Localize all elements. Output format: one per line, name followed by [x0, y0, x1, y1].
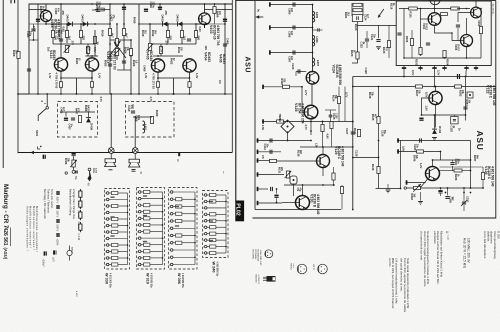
long trimmer arrow ch2 — [114, 42, 126, 59]
terminal base feed — [262, 85, 264, 89]
wire v125 base — [262, 86, 302, 88]
resistor R403 — [79, 31, 82, 38]
muting stage dashed box — [58, 102, 98, 138]
W330 pin 9 — [106, 211, 109, 214]
wire hy e2 — [466, 47, 468, 59]
resistor R423 — [129, 49, 132, 56]
wire rail y86 — [353, 86, 496, 88]
wire y151 rail — [257, 151, 282, 153]
wire drop v102 — [434, 71, 436, 87]
wire ch1 mid rail — [53, 43, 95, 45]
emitter resistor R433 — [59, 82, 62, 88]
tone network dashed box — [126, 102, 175, 138]
wire r122 rail — [362, 3, 364, 16]
W306 pin 4 — [170, 205, 173, 208]
wire c144 — [276, 189, 278, 194]
resistor R133 — [340, 187, 343, 194]
terminal antenna 2 — [269, 25, 271, 29]
W330 pin 2 — [106, 244, 109, 247]
transistor V101 — [428, 13, 441, 26]
resistor R127 — [416, 85, 423, 88]
wire ch2 output drop — [173, 78, 175, 94]
wire x465 — [465, 77, 467, 121]
transistor V100 (edge) — [430, 0, 440, 5]
wire gnd mid — [387, 184, 389, 189]
wire mixer drop — [287, 121, 289, 123]
capacitor C411 — [187, 39, 191, 41]
capacitor C121 — [376, 40, 380, 42]
wire ch2 base rail V404 — [153, 55, 183, 57]
wire V403 emitter to diode row — [204, 25, 206, 28]
capacitor C126 — [463, 107, 467, 109]
wire W330 pin 8 — [109, 238, 128, 240]
wire r436 — [73, 156, 75, 160]
transistor V414 — [54, 58, 67, 71]
wire W306 pin 3 — [173, 191, 195, 193]
long trimmer arrow ch1 — [108, 41, 121, 58]
wire y115 — [422, 114, 466, 116]
lamp H401 — [108, 148, 114, 154]
capacitor C249 — [450, 163, 454, 165]
capacitor C608 — [318, 28, 320, 31]
trimmer capacitor C237 — [462, 202, 466, 204]
W330 pin 3 — [106, 198, 109, 201]
W330 pin 5 — [106, 231, 109, 234]
wire mid rail x117 — [116, 24, 118, 60]
wire r126 — [322, 122, 324, 125]
wire ch1 output drop — [76, 78, 78, 94]
wire supply rail y76 — [353, 76, 491, 78]
wire r120 — [388, 26, 390, 41]
ground c121 — [376, 47, 381, 50]
boxed capacitor C124 — [352, 15, 362, 22]
capacitor C606 — [293, 25, 295, 29]
wire x378 rail — [378, 87, 380, 189]
wire c236 — [447, 188, 449, 195]
wire W330 pin 9 — [109, 212, 128, 214]
resistor R236 — [454, 169, 462, 172]
wire ch1 rail x53 — [52, 24, 54, 44]
wire antenna stub 1 — [269, 4, 313, 6]
resistor R105 — [479, 27, 482, 34]
W310 pin 2 — [138, 197, 141, 200]
diode D406 — [86, 118, 91, 123]
terminal antenna 3 — [269, 50, 271, 54]
W310 pin 1 — [138, 204, 141, 207]
W310 pin 4 — [138, 217, 141, 220]
wire W330 pin 3 — [109, 225, 112, 227]
resistor R125 — [277, 120, 284, 123]
wire c249 — [452, 160, 454, 162]
lamp H402 — [132, 148, 138, 154]
wire trim ch2 — [149, 24, 151, 43]
wire W330 pin 5 — [109, 192, 112, 194]
wire ch2 rail x168 — [167, 24, 169, 43]
wire x345 — [344, 87, 346, 122]
wire c125b — [330, 110, 332, 115]
resistor R427 — [98, 8, 105, 11]
title underline — [10, 228, 12, 247]
wire antenna stub 3 — [269, 52, 313, 54]
wire W330 pin 4 — [109, 251, 112, 253]
wire ch1 collector rail — [45, 4, 47, 10]
terminal y203 — [257, 201, 259, 205]
diode D403 — [83, 22, 88, 27]
terminal y140 right — [397, 138, 399, 142]
connector PL02 black label — [235, 201, 244, 222]
left page edge line — [2, 0, 4, 168]
connector W306 outline — [169, 188, 198, 270]
capacitor C426 — [158, 7, 162, 10]
wire W310 pin 4 — [141, 264, 144, 266]
wire x352 rail — [352, 77, 354, 210]
wire hy mid — [452, 33, 461, 41]
wire d132 stub — [434, 115, 436, 129]
inductor L606 — [313, 36, 315, 47]
transistor V413 — [40, 10, 51, 21]
wire drop v101 — [403, 71, 405, 77]
emitter resistor R434 — [90, 82, 93, 88]
terminal stub below border — [178, 153, 180, 157]
inductor L605 — [313, 12, 315, 23]
W306 pin 5 — [170, 234, 173, 237]
wire ch2 rail x139 — [138, 4, 140, 94]
IF input arrow — [256, 15, 263, 18]
wire hy r105 — [480, 9, 482, 27]
resistor R121 — [353, 3, 362, 6]
terminal y151 — [257, 150, 259, 154]
W240 pin 5 — [204, 220, 207, 223]
wire c608 stub — [313, 29, 323, 31]
W306 pin 1 — [170, 198, 173, 201]
W240 pin 6 — [204, 194, 207, 197]
wire v129 base rail — [276, 160, 317, 162]
left page inner rail — [17, 0, 19, 153]
wire W310 pin 4 — [141, 217, 144, 219]
transistor V126 — [426, 167, 440, 181]
terminal y121 — [262, 119, 264, 123]
W330 pin 6 — [106, 218, 109, 221]
wire ch2 mid rail — [153, 43, 196, 45]
wire r133 — [341, 185, 343, 187]
W310 pin 5 — [138, 191, 141, 194]
resistor R126 — [321, 125, 324, 132]
wire W330 bus — [127, 193, 129, 265]
wire spk2 join — [134, 154, 136, 160]
wire y160 row — [433, 159, 471, 161]
wire y147 rail — [300, 146, 353, 148]
ground d132 — [432, 138, 437, 141]
capacitor C413 — [144, 9, 148, 12]
wire W240 pin 3 — [207, 226, 210, 228]
resistor R406 — [93, 37, 96, 44]
pin r233 — [404, 187, 406, 189]
W330 pin 5 — [106, 192, 109, 195]
pin marker — [38, 146, 41, 149]
wire tp link — [358, 25, 397, 27]
capacitor C404 — [31, 29, 35, 31]
wire ch1 top rail — [29, 9, 46, 11]
W310 pin 8 — [138, 211, 141, 214]
wire ch2 top rail — [205, 9, 233, 11]
wire mute rail — [60, 111, 95, 113]
wire W306 pin 2 — [173, 213, 176, 215]
wire W306 pin 2 — [173, 264, 195, 266]
hybrid pin stub — [444, 66, 446, 71]
test point arrow — [378, 9, 384, 18]
wire gnd r233 — [420, 192, 422, 201]
wire ch1 base rail V415 — [85, 55, 98, 57]
capacitor C430 — [43, 155, 46, 159]
wire hy bottom rail — [404, 57, 481, 59]
wire ch1 rail x38 — [37, 4, 39, 94]
wire v125 e — [310, 119, 312, 135]
resistor R408 — [150, 117, 153, 124]
diode D400 — [163, 22, 168, 27]
W330 pin 3 — [106, 224, 109, 227]
W306 pin 4 — [170, 256, 173, 259]
loudspeaker B401 — [105, 159, 116, 167]
W240 pin 4 — [204, 239, 207, 242]
wire ladder rail — [312, 5, 314, 72]
W240 pin 8 — [204, 213, 207, 216]
ground mid — [386, 190, 391, 193]
wire W306 pin 2 — [173, 227, 195, 229]
W240 pin 3 — [204, 226, 207, 229]
wire W240 pin 2 — [207, 207, 226, 209]
W240 pin 7 — [204, 252, 207, 255]
resistor R101 — [409, 7, 418, 10]
wire W330 pin 3 — [109, 199, 128, 201]
wire W306 pin 6 — [173, 220, 176, 222]
W330 pin 8 — [106, 237, 109, 240]
legend electrolytic symbols — [44, 251, 47, 255]
capacitor C408 — [131, 111, 135, 113]
capacitor C125 — [458, 74, 460, 79]
transistor V102 — [471, 7, 482, 18]
diode D401 — [178, 22, 183, 27]
transistor V404 — [183, 59, 196, 72]
amplifier section border — [29, 4, 232, 94]
wire W306 pin 1 — [173, 249, 195, 251]
junction dots right page — [312, 4, 314, 6]
wire hy v4 — [475, 1, 477, 7]
right page top border — [236, 0, 496, 2]
terminal antenna 1 — [269, 2, 271, 6]
wire ch1 x95 — [94, 30, 96, 56]
wire v124-v125 — [311, 84, 313, 105]
wire hybrid top rail — [399, 8, 470, 10]
wire y174 stub — [257, 174, 285, 176]
capacitor C141 — [270, 138, 272, 142]
wire antenna stub 2 — [269, 27, 313, 29]
trimmer R436 — [72, 160, 75, 167]
wire y188 left — [376, 188, 401, 190]
wire v126 base — [420, 178, 429, 188]
wire mid cross — [110, 39, 131, 41]
transistor V129 — [317, 155, 330, 168]
resistor R124 — [337, 97, 340, 104]
terminal y140 — [257, 138, 259, 142]
wire W240 pin 6 — [207, 233, 210, 235]
resistor R413 — [166, 31, 169, 38]
resistor R128b — [283, 85, 290, 88]
resistor R420 — [108, 29, 111, 36]
capacitor C431 — [72, 153, 76, 156]
resistor R401 — [51, 31, 54, 38]
test point socket 2 — [65, 172, 67, 174]
resistor R422 — [122, 29, 125, 36]
wire v126 c — [432, 160, 434, 167]
wire r132 — [333, 167, 335, 173]
loudspeaker B402 — [129, 159, 140, 167]
wire c121 — [378, 26, 380, 39]
wire v130 b — [282, 202, 296, 204]
W306 pin 2 — [170, 213, 173, 216]
transistor V122 — [429, 91, 442, 104]
wire ch1 long rail — [18, 93, 232, 95]
right page right border — [495, 1, 497, 219]
wire ch1 rail x61 upper — [60, 4, 62, 58]
connector W240 outline — [203, 191, 229, 258]
wire W306 bus — [194, 192, 196, 265]
wire y160 stub — [257, 160, 271, 162]
wire rail y121 — [262, 121, 353, 123]
hybrid pin stub — [403, 66, 405, 71]
capacitor C420 — [108, 64, 112, 66]
wire r236 — [462, 170, 471, 172]
trimmer R405 — [65, 46, 68, 53]
legend voltage symbol — [88, 168, 91, 171]
wire c122 — [366, 31, 368, 38]
ASU module left rail — [254, 1, 256, 210]
wire v130 c — [302, 185, 304, 196]
wire switch feed — [46, 94, 48, 107]
wire W306 pin 1 — [173, 198, 176, 200]
wire v125 base drop — [302, 87, 304, 112]
emitter resistor R437 — [188, 82, 191, 88]
capacitor C236 — [445, 197, 449, 199]
wire ch2 collector rail — [204, 4, 206, 13]
wire W310 pin 2 — [141, 237, 163, 239]
W330 pin 7 — [106, 257, 109, 260]
wire r123 link — [352, 59, 358, 63]
resistor R128 — [455, 85, 462, 88]
W310 pin 6 — [138, 230, 141, 233]
wire r134 — [358, 122, 360, 130]
resistor R136 — [377, 167, 380, 174]
wire hy c2 — [466, 18, 468, 35]
wire W240 pin 5 — [207, 220, 210, 222]
hybrid junction dots — [420, 8, 422, 10]
capacitor C407 — [71, 118, 75, 120]
wire c403 — [92, 9, 104, 11]
W310 pin 5 — [138, 243, 141, 246]
wire ch2 rail x196 — [195, 24, 197, 44]
ASU module bottom rail — [255, 209, 341, 211]
terminal y160 — [257, 158, 259, 162]
transistor V403 — [199, 13, 211, 25]
wire r129 — [331, 129, 333, 147]
wire v124 base — [296, 71, 306, 73]
wire v126 e rail — [406, 182, 426, 184]
hybrid extra resistor R107 — [441, 13, 448, 16]
wire W240 pin 6 — [207, 194, 210, 196]
wire c123 — [295, 72, 297, 77]
W310 pin 4 — [138, 263, 141, 266]
pinout circle BC — [265, 250, 273, 258]
IF hybrid module box — [396, 1, 491, 66]
polarity mark speaker II — [132, 169, 136, 171]
resistor R404 — [86, 47, 89, 54]
inductor L607 — [313, 58, 315, 66]
wire mid rail x131 — [130, 40, 132, 94]
strip box inner marks — [110, 197, 114, 198]
page divider line A — [231, 0, 233, 153]
W240 pin 4 — [204, 200, 207, 203]
wire c124 down — [357, 22, 359, 52]
transistor V405 — [151, 59, 164, 72]
wire y140 rail — [257, 140, 312, 142]
transistor V124 — [306, 72, 319, 85]
wire spk1 join — [110, 154, 112, 159]
W330 pin 2 — [106, 263, 109, 266]
resistor R412 — [180, 31, 183, 38]
wire r124 — [338, 87, 340, 97]
connector W310 outline — [137, 188, 165, 270]
resistor R120 — [387, 41, 390, 48]
wire mid rail x110 — [109, 4, 111, 94]
amplifier bottom rail — [18, 152, 232, 154]
W306 pin 3 — [170, 191, 173, 194]
resistor R411 — [194, 31, 197, 38]
switch S401 blade — [38, 109, 46, 116]
wire V413 emitter to diode row — [45, 22, 47, 24]
resistor R414 — [159, 47, 162, 54]
resistor R409 — [213, 7, 216, 14]
resistor R134 — [357, 130, 360, 137]
resistor R135 — [377, 117, 380, 124]
wire ch2 rail x182 — [181, 24, 183, 44]
W330 pin 1 — [106, 205, 109, 208]
capacitor C427 — [27, 69, 31, 71]
junction dots amp — [45, 23, 47, 25]
wire W306 pin 5 — [173, 235, 176, 237]
wire ch1 rail x67 — [66, 24, 68, 43]
wire mixer out — [287, 131, 289, 140]
inductor L401 — [143, 121, 145, 133]
resistor R129 — [330, 122, 333, 129]
wire y185 rail — [284, 184, 335, 186]
wire c238 — [440, 188, 442, 190]
capacitor C142 — [270, 150, 272, 154]
capacitor C401 — [59, 39, 63, 41]
hybrid extra resistor R106 — [410, 39, 413, 46]
wire W240 bus — [225, 195, 227, 253]
rounded filter box — [290, 176, 297, 184]
potentiometer R233 — [414, 186, 421, 189]
trimmer R424 — [115, 49, 118, 56]
capacitor C144 — [274, 195, 278, 198]
resistor R238 — [481, 173, 484, 180]
wire W330 pin 5 — [109, 231, 112, 233]
wire W240 pin 8 — [207, 213, 210, 215]
wire hy v2 — [420, 9, 422, 56]
W306 pin 6 — [170, 220, 173, 223]
wire hy c102 — [457, 28, 459, 41]
wire diode row ch1 — [46, 23, 110, 25]
wire v129 c — [322, 147, 324, 155]
